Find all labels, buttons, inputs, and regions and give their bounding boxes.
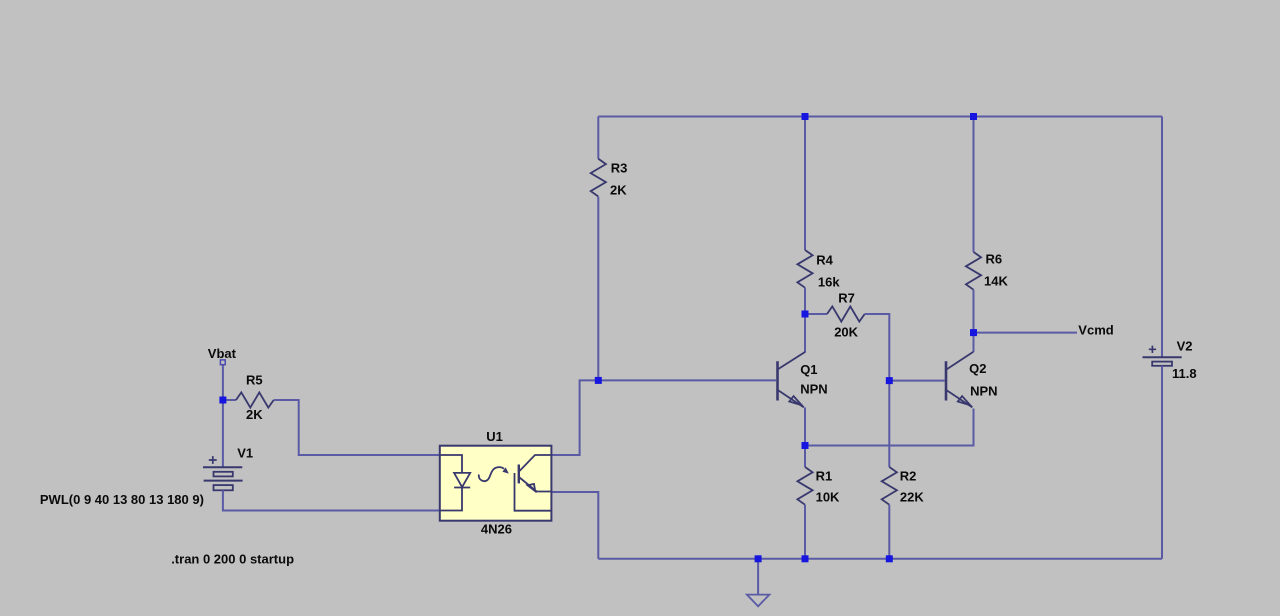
wire: R3 branch vertical top lead bbox=[597, 117, 599, 159]
svg-text:R6: R6 bbox=[986, 252, 1003, 267]
wire: ground rail bbox=[598, 558, 1162, 560]
svg-text:2K: 2K bbox=[246, 407, 263, 422]
wire: V2 branch right side bbox=[1161, 117, 1163, 358]
wire: R4 bottom to Q1 collector node bbox=[804, 288, 806, 352]
wire: V2 bottom to ground rail bbox=[1161, 366, 1163, 559]
opto-coupler U1 4N26 bbox=[440, 446, 552, 521]
junction: R3 / base net bbox=[595, 377, 602, 384]
resistor R1 bbox=[797, 467, 812, 505]
svg-text:R5: R5 bbox=[246, 373, 263, 388]
svg-text:16k: 16k bbox=[818, 274, 840, 289]
wire: R6 bottom to Vcmd node and Q2 collector bbox=[973, 290, 975, 352]
wire: R4 branch from top rail bbox=[804, 117, 806, 251]
svg-text:14K: 14K bbox=[984, 273, 1008, 288]
wire: opto emitter to ground rail bbox=[551, 492, 598, 559]
svg-text:.tran 0 200 0 startup: .tran 0 200 0 startup bbox=[171, 552, 294, 567]
resistor R6 bbox=[966, 252, 981, 290]
wire: R3 bottom lead to base node bbox=[597, 197, 599, 381]
svg-text:Q2: Q2 bbox=[969, 361, 986, 376]
svg-text:R7: R7 bbox=[838, 291, 855, 306]
wire: Vbat port down to R5 node bbox=[222, 365, 224, 400]
wire: R1 bottom to ground rail bbox=[804, 505, 806, 559]
transistor Q1 bbox=[778, 352, 806, 408]
wire: R7 left lead from R4/Q1 node bbox=[805, 313, 827, 315]
svg-text:R1: R1 bbox=[816, 469, 833, 484]
wire: R5 right lead to opto anode bbox=[274, 400, 440, 455]
junction: Vbat / R5 bbox=[219, 397, 226, 404]
svg-text:NPN: NPN bbox=[970, 383, 997, 398]
wire: top supply rail bbox=[598, 116, 1162, 118]
svg-text:PWL(0 9 40 13 80 13 180 9): PWL(0 9 40 13 80 13 180 9) bbox=[40, 492, 204, 507]
svg-text:11.8: 11.8 bbox=[1172, 366, 1197, 381]
svg-text:4N26: 4N26 bbox=[481, 522, 512, 537]
svg-text:R2: R2 bbox=[900, 469, 917, 484]
svg-text:Vcmd: Vcmd bbox=[1078, 323, 1113, 338]
voltage source V2 battery bbox=[1143, 346, 1182, 366]
wire: R2 bottom to ground rail bbox=[888, 505, 890, 559]
wire: R6 branch from top rail bbox=[973, 117, 975, 253]
junction: top rail / R6 bbox=[970, 113, 977, 120]
wire: R1 top lead bbox=[804, 446, 806, 468]
resistor R3 bbox=[591, 159, 606, 197]
svg-text:U1: U1 bbox=[486, 429, 503, 444]
svg-text:Q1: Q1 bbox=[800, 362, 817, 377]
junction: ground rail / ground stub bbox=[755, 555, 762, 562]
voltage source V1 battery bbox=[203, 456, 243, 490]
wire: emitter node to Q2 emitter bbox=[805, 409, 974, 446]
wire: R5 node down to V1 top bbox=[222, 400, 224, 467]
junction: R7-R2 / Q2 base bbox=[886, 377, 893, 384]
resistor R7 bbox=[827, 306, 865, 321]
transistor Q2 bbox=[946, 352, 973, 408]
wire: V1 bottom to opto cathode bbox=[223, 490, 440, 510]
svg-text:V2: V2 bbox=[1177, 339, 1193, 354]
junction: R6 / Vcmd / Q2 collector bbox=[970, 329, 977, 336]
wire: Q1 emitter down to emitter node bbox=[804, 407, 806, 445]
resistor R4 bbox=[797, 250, 812, 288]
svg-text:20K: 20K bbox=[834, 325, 858, 340]
wire: base net from opto to Q1 base bbox=[551, 380, 776, 455]
junction: Q1 emitter / R1 bbox=[802, 442, 809, 449]
junction: top rail / R4 bbox=[802, 113, 809, 120]
svg-text:2K: 2K bbox=[610, 183, 627, 198]
ground bbox=[747, 559, 770, 607]
svg-text:R4: R4 bbox=[816, 252, 833, 267]
junction: R4 / R7 / Q1 collector bbox=[802, 311, 809, 318]
svg-text:V1: V1 bbox=[237, 446, 253, 461]
wire: R7 right lead down to R2/Q2-base node bbox=[865, 314, 890, 467]
svg-text:22K: 22K bbox=[900, 490, 924, 505]
svg-text:Vbat: Vbat bbox=[208, 346, 237, 361]
wire: Q2 base wire from R2/R7 node bbox=[889, 380, 944, 382]
junction: ground rail / R1 bbox=[802, 555, 809, 562]
svg-text:R3: R3 bbox=[611, 161, 628, 176]
resistor R2 bbox=[882, 467, 897, 505]
svg-text:10K: 10K bbox=[816, 490, 840, 505]
port flag Vbat bbox=[220, 360, 225, 365]
junction: ground rail / R2 bbox=[886, 555, 893, 562]
svg-text:NPN: NPN bbox=[800, 382, 827, 397]
resistor R5 bbox=[236, 392, 274, 407]
wire: R5 left lead bbox=[223, 399, 236, 401]
wire: Vcmd net wire bbox=[974, 332, 1078, 334]
